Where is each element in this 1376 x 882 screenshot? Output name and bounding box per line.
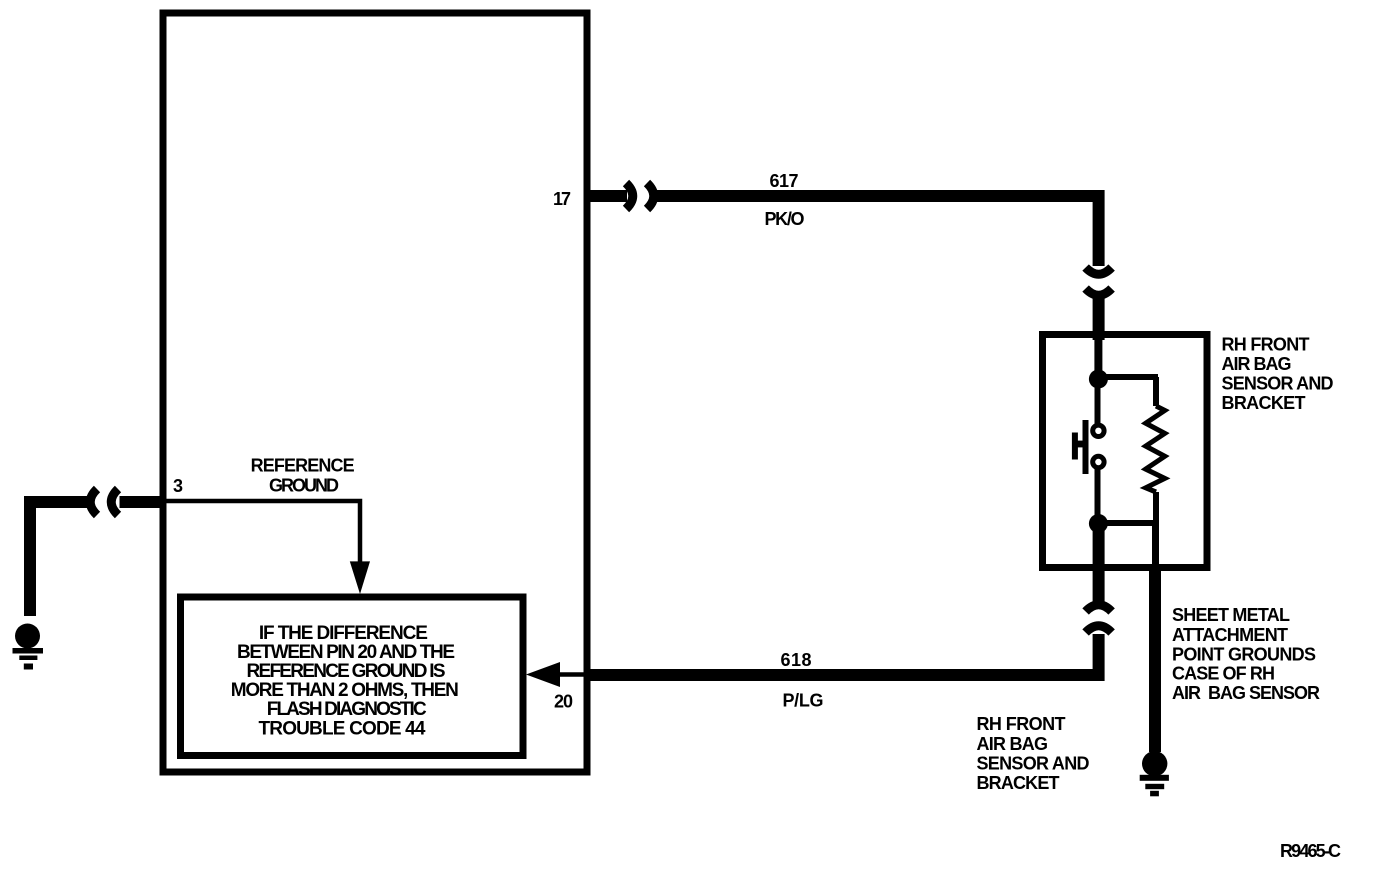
svg-text:AIR BAG: AIR BAG <box>1222 354 1292 374</box>
resistor branch wire through box bottom <box>1152 523 1159 569</box>
svg-text:SHEET METAL: SHEET METAL <box>1172 605 1290 625</box>
svg-text:P/LG: P/LG <box>783 691 824 711</box>
resistor R1 bottom stub <box>1153 492 1159 523</box>
switch S1 upper contact circle <box>1093 425 1104 436</box>
ground G2 circle <box>15 624 40 649</box>
svg-text:3: 3 <box>173 476 183 496</box>
svg-text:BRACKET: BRACKET <box>977 773 1060 793</box>
reference ground thin trace <box>166 501 360 562</box>
switch S1 lower contact circle <box>1093 456 1104 467</box>
svg-text:POINT GROUNDS: POINT GROUNDS <box>1172 644 1316 664</box>
svg-text:PK/O: PK/O <box>765 209 805 229</box>
svg-text:618: 618 <box>781 650 812 670</box>
svg-text:BETWEEN PIN 20 AND THE: BETWEEN PIN 20 AND THE <box>237 642 455 663</box>
svg-text:20: 20 <box>554 692 573 712</box>
resistor R1 zigzag <box>1146 406 1165 492</box>
svg-text:REFERENCE: REFERENCE <box>251 456 355 476</box>
wire pin 3 to connector <box>120 496 167 508</box>
pin 20 thin shaft inside box <box>540 672 589 677</box>
ground G2 bar 2 <box>19 656 37 661</box>
connector C3 half (bottom) on sensor return <box>1086 626 1112 633</box>
connector C4 half (right) on pin 3 wire <box>111 489 118 515</box>
svg-text:MORE THAN 2 OHMS, THEN: MORE THAN 2 OHMS, THEN <box>231 680 459 701</box>
case ground stem wire <box>1149 567 1161 752</box>
ground G2 bar 3 <box>24 664 33 670</box>
svg-text:TROUBLE CODE 44: TROUBLE CODE 44 <box>259 718 426 739</box>
resistor R1 top wire <box>1100 374 1158 380</box>
svg-text:AIR BAG: AIR BAG <box>977 734 1049 754</box>
resistor R1 top stub <box>1153 377 1159 406</box>
connector C3 half (top) on sensor return <box>1086 605 1112 612</box>
svg-text:R9465-C: R9465-C <box>1280 841 1341 861</box>
svg-text:RH FRONT: RH FRONT <box>1222 335 1310 355</box>
wire into sensor box top <box>1093 298 1105 341</box>
svg-text:REFERENCE GROUND IS: REFERENCE GROUND IS <box>247 661 446 682</box>
ground G1 bar 1 <box>1140 775 1169 781</box>
svg-text:BRACKET: BRACKET <box>1222 393 1306 413</box>
wire node B down through box bottom to connector <box>1093 523 1105 603</box>
airbag diagnostic monitor box U1 <box>163 13 587 772</box>
resistor R1 bottom wire to node B <box>1100 520 1159 526</box>
switch S1 plunger cap bar <box>1072 433 1078 460</box>
ground G2 bar 1 <box>13 648 44 654</box>
svg-text:SENSOR AND: SENSOR AND <box>1222 373 1334 393</box>
connector C2 half (top) on vertical 617 drop <box>1086 268 1112 275</box>
svg-text:CASE OF RH: CASE OF RH <box>1172 663 1275 683</box>
wire to left ground corner <box>30 502 89 616</box>
wire 617 horizontal run and corner down <box>656 196 1099 266</box>
wire node A to switch <box>1095 379 1101 424</box>
svg-text:IF THE DIFFERENCE: IF THE DIFFERENCE <box>259 623 428 644</box>
svg-text:GROUND: GROUND <box>269 476 339 496</box>
reference ground arrowhead <box>350 561 370 594</box>
ground G1 bar 3 <box>1150 791 1159 797</box>
wire inside sensor box from top edge to node A <box>1094 338 1102 372</box>
wire 618 corner and horizontal run to pin 20 <box>589 634 1099 675</box>
switch S1 plunger stem <box>1077 441 1085 448</box>
connector C1 half (left) on wire 617 <box>626 183 633 209</box>
svg-text:17: 17 <box>553 189 571 209</box>
connector C4 half (left) on pin 3 wire <box>90 489 97 515</box>
pin 20 arrowhead <box>526 662 560 687</box>
svg-text:RH FRONT: RH FRONT <box>977 714 1066 734</box>
switch S1 plunger main bar <box>1083 420 1089 474</box>
node A junction dot <box>1089 370 1108 389</box>
svg-text:ATTACHMENT: ATTACHMENT <box>1172 625 1288 645</box>
RH front air bag sensor box <box>1043 335 1208 568</box>
svg-text:617: 617 <box>770 171 799 191</box>
ground G1 bar 2 <box>1145 784 1164 789</box>
wire switch to node B <box>1095 468 1101 515</box>
connector C2 half (bottom) on vertical 617 drop <box>1086 289 1112 296</box>
node B junction dot <box>1089 514 1108 533</box>
ground G1 (case of RH air bag sensor) circle <box>1142 751 1167 776</box>
diagnostic note box <box>181 597 524 756</box>
svg-text:AIR BAG SENSOR: AIR BAG SENSOR <box>1172 683 1320 703</box>
connector C1 half (right) on wire 617 <box>647 183 654 209</box>
wire 617 from pin 17 to connector <box>587 190 627 202</box>
svg-text:SENSOR AND: SENSOR AND <box>977 754 1090 774</box>
svg-text:FLASH DIAGNOSTIC: FLASH DIAGNOSTIC <box>267 699 427 720</box>
